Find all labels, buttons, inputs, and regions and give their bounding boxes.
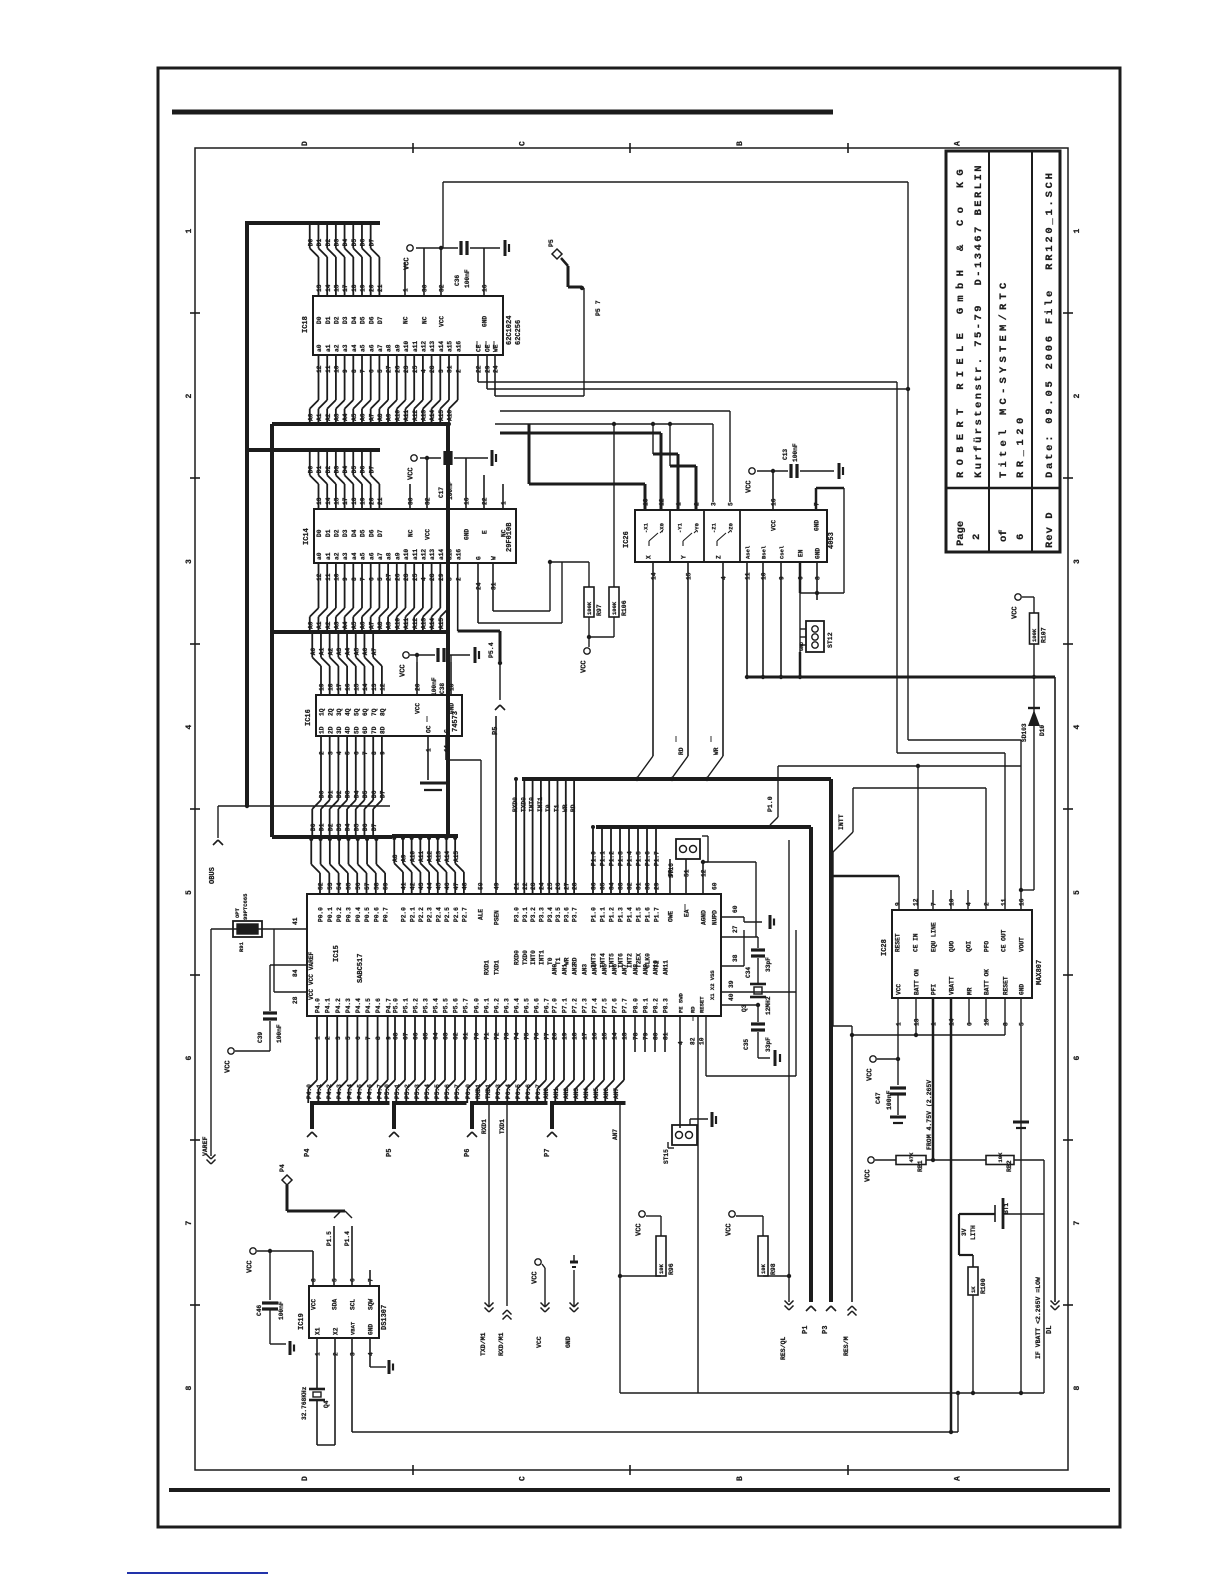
svg-text:50: 50 bbox=[478, 882, 485, 890]
svg-text:P4.7: P4.7 bbox=[377, 1084, 384, 1099]
svg-text:a8: a8 bbox=[386, 552, 393, 560]
ground at C47 bbox=[890, 1117, 906, 1123]
svg-text:D6: D6 bbox=[371, 790, 378, 798]
capacitor C35 bbox=[743, 1005, 772, 1058]
svg-text:VCC: VCC bbox=[865, 1169, 873, 1182]
svg-text:7: 7 bbox=[360, 577, 367, 581]
crystal Q3 bbox=[741, 984, 772, 1015]
svg-text:a4: a4 bbox=[351, 552, 358, 560]
svg-text:A7: A7 bbox=[368, 621, 375, 629]
svg-text:13: 13 bbox=[316, 497, 323, 505]
svg-text:D2: D2 bbox=[334, 316, 341, 324]
wire address bus vertical V2 bbox=[270, 424, 274, 837]
svg-text:VCC: VCC bbox=[425, 529, 432, 540]
svg-text:13: 13 bbox=[622, 1032, 629, 1040]
svg-text:R100: R100 bbox=[980, 1278, 987, 1294]
svg-text:1: 1 bbox=[315, 1036, 322, 1040]
svg-text:6: 6 bbox=[798, 576, 805, 580]
svg-text:P4.6: P4.6 bbox=[375, 998, 382, 1013]
svg-text:P6.5: P6.5 bbox=[524, 998, 531, 1013]
wire P3 bus drop to connector bbox=[829, 779, 833, 1302]
wire address bus below IC18 bbox=[272, 422, 448, 426]
ic IC14 29F010B body bbox=[303, 509, 516, 563]
svg-text:INT1: INT1 bbox=[537, 797, 544, 812]
node OBUS line bbox=[218, 804, 390, 838]
svg-text:of: of bbox=[998, 529, 1010, 542]
svg-text:32.768KHz: 32.768KHz bbox=[301, 1386, 308, 1420]
ic IC19 DS1307 body bbox=[298, 1286, 389, 1338]
svg-text:39: 39 bbox=[728, 980, 735, 988]
svg-text:67: 67 bbox=[403, 1032, 410, 1040]
svg-text:VCC: VCC bbox=[581, 660, 589, 673]
wire WE line to P5.7 bbox=[495, 395, 584, 397]
svg-text:T0: T0 bbox=[547, 957, 554, 965]
resistor R98 bbox=[726, 1211, 792, 1278]
svg-text:a15: a15 bbox=[447, 341, 454, 352]
svg-text:Kurfürstenstr. 75-79 D-13467: Kurfürstenstr. 75-79 D-13467 BERLIN bbox=[973, 163, 985, 478]
svg-text:5: 5 bbox=[1019, 1022, 1026, 1026]
svg-text:27: 27 bbox=[386, 365, 393, 373]
svg-text:AN0: AN0 bbox=[552, 964, 559, 975]
svg-text:A4: A4 bbox=[342, 621, 349, 629]
svg-text:T1: T1 bbox=[554, 804, 561, 812]
svg-text:a14: a14 bbox=[438, 549, 445, 560]
ic IC15 left pins VAREF VCC bbox=[270, 929, 315, 1004]
svg-text:Q4: Q4 bbox=[323, 1400, 330, 1408]
capacitor C46 bbox=[256, 1251, 285, 1344]
svg-text:X2: X2 bbox=[333, 1327, 340, 1335]
svg-text:D2: D2 bbox=[327, 823, 334, 831]
svg-text:54: 54 bbox=[336, 882, 343, 890]
svg-text:D3: D3 bbox=[342, 316, 349, 324]
svg-text:4: 4 bbox=[368, 1352, 375, 1356]
page outer border bbox=[158, 68, 1120, 1527]
svg-text:A11: A11 bbox=[418, 851, 425, 862]
svg-text:P4: P4 bbox=[304, 1149, 312, 1157]
svg-text:P4.2: P4.2 bbox=[326, 1084, 333, 1099]
svg-text:a7: a7 bbox=[377, 552, 384, 560]
svg-text:10K: 10K bbox=[658, 1263, 665, 1274]
svg-text:12: 12 bbox=[316, 573, 323, 581]
ground at C17 bbox=[492, 450, 496, 466]
svg-text:2: 2 bbox=[319, 751, 326, 755]
svg-text:16: 16 bbox=[771, 498, 778, 506]
grid letter C bottom bbox=[519, 1476, 528, 1481]
svg-text:1Q: 1Q bbox=[319, 708, 326, 716]
wire IC28 VBATT bbox=[950, 998, 953, 1432]
svg-text:23: 23 bbox=[403, 365, 410, 373]
resistor R96 bbox=[618, 1211, 675, 1278]
ic IC16 output pins bbox=[310, 630, 387, 716]
svg-text:NC: NC bbox=[408, 529, 415, 537]
connector TXD M1 bbox=[480, 1303, 494, 1357]
svg-text:D0: D0 bbox=[310, 823, 317, 831]
connector VCC out bbox=[532, 1259, 550, 1348]
svg-text:A8: A8 bbox=[377, 413, 384, 421]
svg-text:a0: a0 bbox=[316, 344, 323, 352]
svg-text:a1: a1 bbox=[325, 552, 332, 560]
svg-text:a11: a11 bbox=[412, 549, 419, 560]
svg-text:ST16: ST16 bbox=[668, 863, 675, 878]
svg-text:a16: a16 bbox=[455, 341, 462, 352]
svg-text:-Y1: -Y1 bbox=[677, 522, 684, 533]
svg-text:RD: RD bbox=[678, 747, 685, 755]
svg-text:P8.1: P8.1 bbox=[643, 998, 650, 1013]
svg-text:6Q: 6Q bbox=[362, 708, 369, 716]
svg-text:34: 34 bbox=[609, 882, 616, 890]
svg-text:a2: a2 bbox=[334, 552, 341, 560]
svg-text:76: 76 bbox=[534, 1032, 541, 1040]
svg-text:D7: D7 bbox=[380, 790, 387, 798]
svg-text:6: 6 bbox=[967, 1022, 974, 1026]
svg-text:6: 6 bbox=[355, 1036, 362, 1040]
svg-text:Y: Y bbox=[681, 555, 688, 559]
svg-text:C36: C36 bbox=[454, 275, 461, 286]
svg-text:P5.5: P5.5 bbox=[443, 998, 450, 1013]
svg-text:4Q: 4Q bbox=[345, 708, 352, 716]
svg-text:100nF: 100nF bbox=[276, 1024, 283, 1043]
ic IC16 74573 body bbox=[305, 695, 462, 736]
svg-text:P2.1: P2.1 bbox=[409, 907, 416, 922]
connector ST16 bbox=[668, 836, 708, 878]
top rule line bbox=[172, 110, 833, 115]
svg-text:a14: a14 bbox=[438, 341, 445, 352]
svg-text:INTT: INTT bbox=[838, 814, 845, 830]
svg-text:NC: NC bbox=[422, 316, 429, 324]
svg-text:AN2: AN2 bbox=[572, 964, 579, 975]
svg-text:ST12: ST12 bbox=[827, 632, 834, 648]
svg-text:RXD1: RXD1 bbox=[475, 1084, 482, 1099]
svg-text:CE OUT: CE OUT bbox=[1001, 929, 1008, 952]
svg-text:X1 X2 VSS: X1 X2 VSS bbox=[709, 970, 716, 1000]
wire IC14 G loop bbox=[478, 562, 562, 623]
svg-text:20: 20 bbox=[415, 683, 422, 691]
svg-text:8: 8 bbox=[351, 577, 358, 581]
svg-text:P5.5: P5.5 bbox=[434, 1084, 441, 1099]
svg-text:P7.1: P7.1 bbox=[562, 998, 569, 1013]
svg-text:a5: a5 bbox=[360, 552, 367, 560]
capacitor C39 bbox=[235, 965, 283, 1051]
frame column ticks bottom bbox=[413, 1465, 848, 1475]
svg-text:BATT ON: BATT ON bbox=[914, 969, 921, 995]
svg-text:A7: A7 bbox=[368, 413, 375, 421]
svg-text:18: 18 bbox=[351, 497, 358, 505]
ground at C46 bbox=[270, 1341, 294, 1355]
ic IC15 AGND pin bbox=[701, 860, 756, 937]
ic IC15 PE SWD pin bbox=[678, 992, 685, 1128]
svg-text:27: 27 bbox=[732, 925, 739, 933]
svg-text:23: 23 bbox=[530, 882, 537, 890]
svg-text:28: 28 bbox=[292, 996, 299, 1004]
svg-text:3: 3 bbox=[438, 369, 445, 373]
svg-text:P5.1: P5.1 bbox=[394, 1084, 401, 1099]
svg-text:D3: D3 bbox=[333, 239, 340, 247]
svg-text:A6: A6 bbox=[362, 648, 369, 656]
svg-text:RESET: RESET bbox=[1003, 976, 1010, 995]
svg-text:WR: WR bbox=[563, 957, 570, 965]
svg-text:3: 3 bbox=[327, 751, 334, 755]
svg-text:48: 48 bbox=[462, 882, 469, 890]
svg-text:100nF: 100nF bbox=[278, 1301, 285, 1320]
svg-text:PFI: PFI bbox=[931, 984, 938, 995]
svg-text:D6: D6 bbox=[360, 466, 367, 474]
svg-text:P0.0: P0.0 bbox=[318, 907, 325, 922]
svg-text:SDA: SDA bbox=[332, 1299, 339, 1310]
svg-text:44: 44 bbox=[427, 882, 434, 890]
svg-text:26: 26 bbox=[394, 573, 401, 581]
svg-text:NC: NC bbox=[501, 529, 508, 537]
svg-text:2: 2 bbox=[455, 577, 462, 581]
svg-text:QUO: QUO bbox=[949, 941, 956, 952]
grid letter C top bbox=[519, 141, 528, 146]
svg-text:3: 3 bbox=[447, 577, 454, 581]
svg-text:7D: 7D bbox=[371, 726, 378, 734]
power VCC at C36 bbox=[404, 245, 414, 270]
svg-text:64: 64 bbox=[433, 1032, 440, 1040]
svg-text:VCC: VCC bbox=[408, 467, 416, 480]
svg-text:14: 14 bbox=[325, 497, 332, 505]
svg-text:a2: a2 bbox=[334, 344, 341, 352]
svg-text:P6.3: P6.3 bbox=[504, 998, 511, 1013]
svg-text:9: 9 bbox=[895, 902, 902, 906]
grid number 7 left bbox=[185, 1221, 194, 1226]
svg-text:22: 22 bbox=[476, 365, 483, 373]
svg-text:PE SWD: PE SWD bbox=[678, 992, 685, 1013]
grid letter A top bbox=[954, 141, 963, 146]
svg-text:9: 9 bbox=[385, 1036, 392, 1040]
svg-text:GND: GND bbox=[482, 316, 489, 327]
svg-text:5: 5 bbox=[1073, 890, 1082, 895]
svg-text:26: 26 bbox=[555, 882, 562, 890]
svg-text:A0: A0 bbox=[307, 413, 314, 421]
connector DL bbox=[1046, 1301, 1060, 1335]
connector P1 bbox=[802, 1306, 816, 1334]
svg-text:8: 8 bbox=[375, 1036, 382, 1040]
frame column ticks top bbox=[413, 143, 848, 153]
svg-text:10K: 10K bbox=[997, 1152, 1004, 1163]
svg-text:C35: C35 bbox=[743, 1039, 750, 1050]
svg-text:35: 35 bbox=[600, 882, 607, 890]
svg-text:P7.7: P7.7 bbox=[622, 998, 629, 1013]
svg-text:1: 1 bbox=[896, 1022, 903, 1026]
svg-text:D7: D7 bbox=[368, 466, 375, 474]
svg-text:11: 11 bbox=[325, 365, 332, 373]
svg-text:4: 4 bbox=[185, 725, 194, 730]
svg-text:3: 3 bbox=[1073, 559, 1082, 564]
svg-text:AN3: AN3 bbox=[573, 1088, 580, 1099]
svg-text:30: 30 bbox=[645, 882, 652, 890]
svg-text:VCC: VCC bbox=[896, 984, 903, 995]
svg-text:D5: D5 bbox=[351, 239, 358, 247]
svg-text:a15: a15 bbox=[447, 549, 454, 560]
svg-text:D0: D0 bbox=[319, 790, 326, 798]
svg-text:1: 1 bbox=[403, 288, 410, 292]
svg-text:19: 19 bbox=[360, 284, 367, 292]
svg-text:X: X bbox=[646, 555, 653, 559]
svg-text:B: B bbox=[736, 141, 745, 146]
ic IC15 port P4 pins bbox=[304, 998, 393, 1157]
svg-text:5: 5 bbox=[345, 1036, 352, 1040]
svg-text:62C256: 62C256 bbox=[515, 320, 523, 345]
svg-text:9: 9 bbox=[342, 577, 349, 581]
svg-text:a8: a8 bbox=[386, 344, 393, 352]
svg-text:60: 60 bbox=[732, 905, 739, 913]
svg-text:77: 77 bbox=[544, 1032, 551, 1040]
svg-text:P5.1: P5.1 bbox=[403, 998, 410, 1013]
svg-text:P3.5: P3.5 bbox=[555, 907, 562, 922]
svg-text:6: 6 bbox=[353, 751, 360, 755]
ground at C38 bbox=[475, 647, 479, 663]
svg-text:D5: D5 bbox=[351, 466, 358, 474]
svg-text:A2: A2 bbox=[327, 648, 334, 656]
svg-text:QOI: QOI bbox=[966, 941, 973, 952]
svg-text:7: 7 bbox=[931, 902, 938, 906]
ground on GND line bbox=[1013, 1122, 1029, 1128]
svg-text:P1.6: P1.6 bbox=[645, 907, 652, 922]
title text date file bbox=[1044, 170, 1056, 478]
svg-text:VCC: VCC bbox=[311, 1299, 318, 1310]
svg-text:VBAT: VBAT bbox=[350, 1321, 357, 1335]
svg-text:P3.3: P3.3 bbox=[539, 907, 546, 922]
svg-text:TXD1: TXD1 bbox=[485, 1084, 492, 1099]
ic IC16 C pin wire to ALE bbox=[444, 729, 481, 894]
svg-text:25: 25 bbox=[412, 365, 419, 373]
svg-text:VCC: VCC bbox=[771, 520, 778, 531]
svg-text:A8: A8 bbox=[392, 854, 399, 862]
svg-text:4: 4 bbox=[421, 369, 428, 373]
svg-text:41: 41 bbox=[401, 882, 408, 890]
svg-text:D2: D2 bbox=[336, 790, 343, 798]
svg-text:A3: A3 bbox=[333, 413, 340, 421]
svg-text:A11: A11 bbox=[403, 618, 410, 629]
svg-text:D1: D1 bbox=[325, 316, 332, 324]
svg-text:6D: 6D bbox=[362, 726, 369, 734]
svg-text:AN6: AN6 bbox=[612, 964, 619, 975]
wire IC28 BATT ON bbox=[914, 998, 918, 1037]
svg-text:a7: a7 bbox=[377, 344, 384, 352]
svg-text:A4: A4 bbox=[345, 648, 352, 656]
wire address bus below IC14 bbox=[272, 630, 448, 634]
wire crystal loop bbox=[706, 917, 796, 1076]
svg-text:R97: R97 bbox=[596, 604, 603, 616]
grid number 6 left bbox=[185, 1056, 194, 1061]
svg-text:a13: a13 bbox=[429, 341, 436, 352]
ic IC26 GND pin bbox=[800, 488, 844, 621]
svg-text:P0.6: P0.6 bbox=[373, 907, 380, 922]
inner drawing frame bbox=[195, 148, 1068, 1470]
svg-text:29: 29 bbox=[485, 365, 492, 373]
ic IC15 NUPD label bbox=[712, 882, 719, 925]
svg-text:P6: P6 bbox=[464, 1149, 472, 1157]
svg-text:A12: A12 bbox=[412, 618, 419, 629]
ic IC15 PSEN pin bbox=[494, 716, 501, 925]
power VCC at C17 bbox=[408, 455, 418, 480]
svg-text:33pF: 33pF bbox=[765, 1037, 772, 1052]
svg-text:AN7: AN7 bbox=[613, 1088, 620, 1099]
wire IC28 BATT OK bbox=[985, 998, 987, 1024]
svg-text:P2.6: P2.6 bbox=[453, 907, 460, 922]
svg-text:ALE: ALE bbox=[478, 909, 485, 920]
svg-text:5: 5 bbox=[185, 890, 194, 895]
svg-text:VCC: VCC bbox=[247, 1260, 255, 1273]
svg-text:5: 5 bbox=[345, 751, 352, 755]
svg-text:P7.2: P7.2 bbox=[572, 998, 579, 1013]
wire IC28 GND pin bbox=[1020, 998, 1022, 1393]
svg-text:18: 18 bbox=[572, 1032, 579, 1040]
svg-text:14: 14 bbox=[651, 572, 658, 580]
power VCC at IC19 bbox=[247, 1248, 314, 1273]
title block frame bbox=[946, 151, 1060, 552]
svg-text:P4.5: P4.5 bbox=[365, 998, 372, 1013]
svg-text:AN7: AN7 bbox=[622, 964, 629, 975]
svg-text:GND: GND bbox=[1019, 984, 1026, 995]
svg-text:RXD0: RXD0 bbox=[514, 950, 521, 965]
svg-text:82: 82 bbox=[690, 1037, 697, 1045]
svg-text:51: 51 bbox=[684, 869, 691, 877]
svg-text:OWE: OWE bbox=[668, 911, 675, 922]
wire Z0 line bbox=[500, 411, 730, 502]
diode D10 bbox=[1021, 677, 1046, 890]
svg-text:75: 75 bbox=[524, 1032, 531, 1040]
svg-text:P4.7: P4.7 bbox=[385, 998, 392, 1013]
svg-text:12MH2: 12MH2 bbox=[765, 996, 772, 1015]
ic IC18 address pins bbox=[307, 341, 462, 426]
svg-text:P2.4: P2.4 bbox=[435, 907, 442, 922]
svg-text:6: 6 bbox=[185, 1056, 194, 1061]
ic IC26 switch symbols bbox=[649, 530, 731, 546]
svg-text:C13: C13 bbox=[782, 449, 789, 460]
svg-text:D6: D6 bbox=[368, 316, 375, 324]
svg-text:IC14: IC14 bbox=[303, 528, 311, 545]
svg-text:49: 49 bbox=[494, 882, 501, 890]
svg-text:RD: RD bbox=[570, 804, 577, 812]
svg-text:D2: D2 bbox=[334, 529, 341, 537]
svg-text:D1: D1 bbox=[316, 466, 323, 474]
wire IC28 VCC pin bbox=[877, 998, 900, 1061]
svg-text:Bsel: Bsel bbox=[761, 545, 768, 559]
wire P1 bus drop to connector bbox=[809, 827, 813, 1302]
svg-text:VOUT: VOUT bbox=[1019, 937, 1026, 952]
svg-text:W: W bbox=[491, 556, 498, 560]
svg-text:10: 10 bbox=[699, 1037, 706, 1045]
svg-text:P5.0: P5.0 bbox=[384, 1084, 391, 1099]
svg-text:BATT OK: BATT OK bbox=[984, 969, 991, 995]
svg-text:21: 21 bbox=[377, 497, 384, 505]
svg-text:P4.3: P4.3 bbox=[336, 1084, 343, 1099]
grid number 2 left bbox=[185, 394, 194, 399]
svg-text:AN5: AN5 bbox=[602, 964, 609, 975]
connector P5 PSEN bbox=[488, 642, 505, 735]
wire RES M drop bbox=[851, 1035, 853, 1302]
svg-text:a3: a3 bbox=[342, 552, 349, 560]
svg-text:3D: 3D bbox=[336, 726, 343, 734]
svg-text:P1.7: P1.7 bbox=[654, 907, 661, 922]
svg-text:1D: 1D bbox=[319, 726, 326, 734]
svg-text:OBUS: OBUS bbox=[209, 867, 217, 884]
svg-text:Rev D: Rev D bbox=[1044, 511, 1056, 548]
svg-text:12: 12 bbox=[701, 869, 708, 877]
svg-text:NUPD: NUPD bbox=[712, 910, 719, 925]
svg-text:A10: A10 bbox=[394, 410, 401, 421]
svg-text:VCC: VCC bbox=[225, 1060, 233, 1073]
svg-text:P1.4: P1.4 bbox=[627, 851, 634, 866]
svg-text:INT1: INT1 bbox=[539, 950, 546, 965]
svg-text:AN11: AN11 bbox=[663, 960, 670, 975]
svg-text:a9: a9 bbox=[394, 344, 401, 352]
svg-text:P2.0: P2.0 bbox=[401, 907, 408, 922]
svg-text:GND: GND bbox=[464, 529, 471, 540]
svg-text:P1.5: P1.5 bbox=[636, 851, 643, 866]
